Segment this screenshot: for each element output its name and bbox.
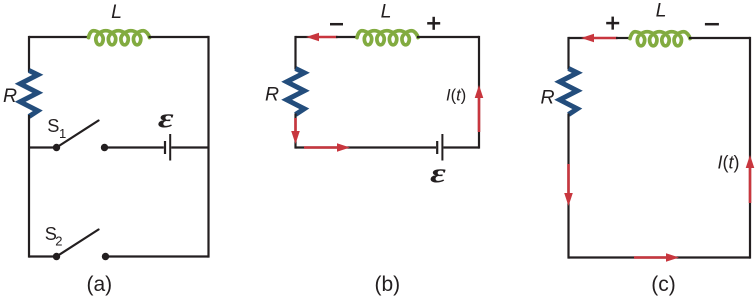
svg-text:R: R <box>265 84 279 106</box>
current arrow down (c left) <box>567 164 570 195</box>
wire: (c) top-left corner stub <box>569 37 586 39</box>
resistor R (c) <box>560 69 578 115</box>
wire: (c) top-right segment <box>689 37 750 39</box>
current arrow up (c right) <box>749 166 752 203</box>
wire: (c) top pre-coil <box>616 37 631 39</box>
svg-text:R: R <box>3 85 17 107</box>
switch S1 blade <box>57 121 99 148</box>
wire: (a) middle branch to battery <box>105 146 164 148</box>
wire: (b) left above resistor <box>294 36 296 70</box>
current arrow down (b left) <box>294 118 297 133</box>
current arrow right (c bottom) <box>634 256 668 259</box>
wire: (c) left above resistor <box>567 37 569 70</box>
wire: (a) middle branch left stub <box>29 146 57 148</box>
resistor R (a) <box>20 71 38 117</box>
label minus (b top-left) <box>330 23 343 26</box>
node: S1 left terminal dot <box>53 144 60 151</box>
svg-text:(b): (b) <box>374 273 400 296</box>
svg-text:(a): (a) <box>86 273 112 296</box>
wire: (b) right side <box>478 36 480 149</box>
battery (b): long positive plate <box>441 134 443 161</box>
inductor L (a) <box>89 31 150 45</box>
svg-text:ε: ε <box>158 103 174 134</box>
svg-text:ε: ε <box>430 158 446 189</box>
wire: (c) bottom <box>569 256 751 258</box>
node: S2 right terminal dot <box>102 253 109 260</box>
wire: (a) right side <box>207 36 209 258</box>
svg-text:R: R <box>541 87 555 109</box>
wire: (a) top-right segment <box>149 36 209 38</box>
node: S2 left terminal dot <box>53 253 60 260</box>
label plus (b top-right) <box>427 22 440 25</box>
current arrow right (b bottom) <box>304 146 339 149</box>
wire: (b) left below resistor <box>294 114 296 149</box>
inductor L (b) <box>357 31 418 45</box>
svg-text:L: L <box>656 0 667 21</box>
battery (b): short negative plate <box>436 141 438 154</box>
svg-text:2: 2 <box>55 233 62 248</box>
wire: (c) right side <box>749 37 751 259</box>
label minus (c top-right) <box>705 23 719 26</box>
battery (a): short negative plate <box>164 141 166 154</box>
battery (a): long positive plate <box>169 134 171 161</box>
svg-text:L: L <box>381 1 392 23</box>
current arrow left (b top) <box>317 36 338 39</box>
wire: (b) top-left corner stub <box>296 36 311 38</box>
circuit (a) <box>3 1 209 296</box>
node: S1 right terminal dot <box>101 144 108 151</box>
svg-text:L: L <box>111 1 122 23</box>
current arrow up (b right) <box>478 96 481 132</box>
wire: (a) left above resistor <box>28 36 30 72</box>
switch S2 blade <box>57 230 99 257</box>
wire: (a) bottom-right segment <box>106 255 209 257</box>
circuit (c) <box>541 0 755 296</box>
current arrow left (c top) <box>592 37 618 40</box>
circuit (b) <box>265 1 483 297</box>
wire: (a) bottom-left stub <box>29 255 57 257</box>
svg-text:S: S <box>47 116 59 136</box>
svg-text:1: 1 <box>59 126 66 141</box>
wire: (a) left below resistor <box>28 115 30 258</box>
wire: (a) middle branch battery to right <box>171 146 208 148</box>
svg-text:I(t): I(t) <box>446 87 466 105</box>
wire: (b) top-right segment <box>417 36 479 38</box>
label plus (c top-left) <box>606 22 619 25</box>
wire: (b) bottom battery to right <box>443 146 479 148</box>
wire: (b) bottom-left to battery <box>296 146 437 148</box>
resistor R (b) <box>287 69 305 115</box>
svg-text:I(t): I(t) <box>718 153 740 173</box>
wire: (b) top pre-coil <box>336 36 358 38</box>
inductor L (c) <box>630 32 690 46</box>
wire: (a) top-left segment <box>29 36 90 38</box>
svg-text:(c): (c) <box>651 273 676 296</box>
wire: (c) left below resistor <box>567 114 569 259</box>
